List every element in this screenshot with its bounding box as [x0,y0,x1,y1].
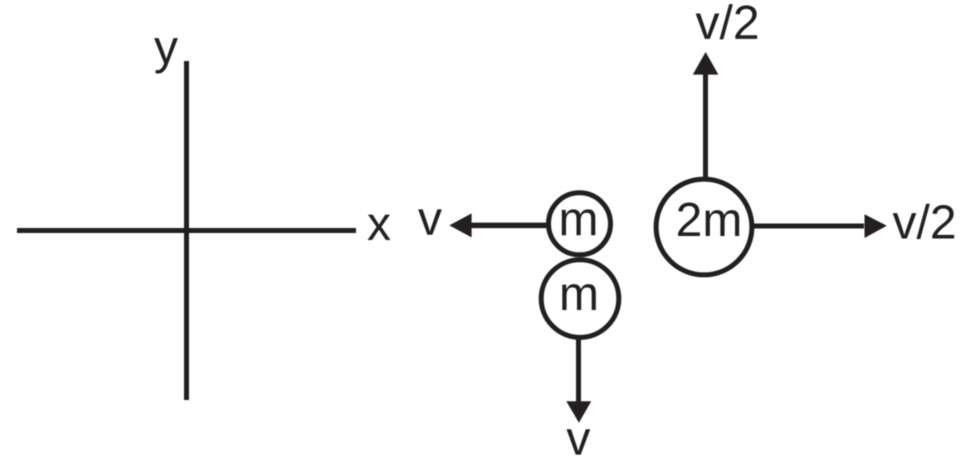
arrow v left: head [449,213,471,237]
svg-text:x: x [367,198,391,251]
svg-text:m: m [559,193,599,246]
arrow v down: head [566,401,591,423]
x-axis [17,228,356,233]
arrow v left: wire [470,223,547,229]
y-axis [184,61,189,400]
mass m (lower circle) [541,260,619,338]
mass 2m circle [656,179,752,275]
svg-text:v: v [418,193,442,246]
svg-text:2m: 2m [676,194,743,247]
arrow v/2 up: head [693,52,719,75]
arrow v down: wire [576,338,581,402]
arrow v/2 right: wire [754,224,864,229]
arrow v/2 up: wire [703,74,708,178]
svg-text:v/2: v/2 [695,0,759,50]
arrow v/2 right: head [865,214,887,238]
svg-text:v: v [566,413,590,465]
svg-text:m: m [559,268,599,321]
svg-text:y: y [154,22,178,75]
mass m (upper circle) [549,193,611,255]
svg-text:v/2: v/2 [892,197,956,250]
